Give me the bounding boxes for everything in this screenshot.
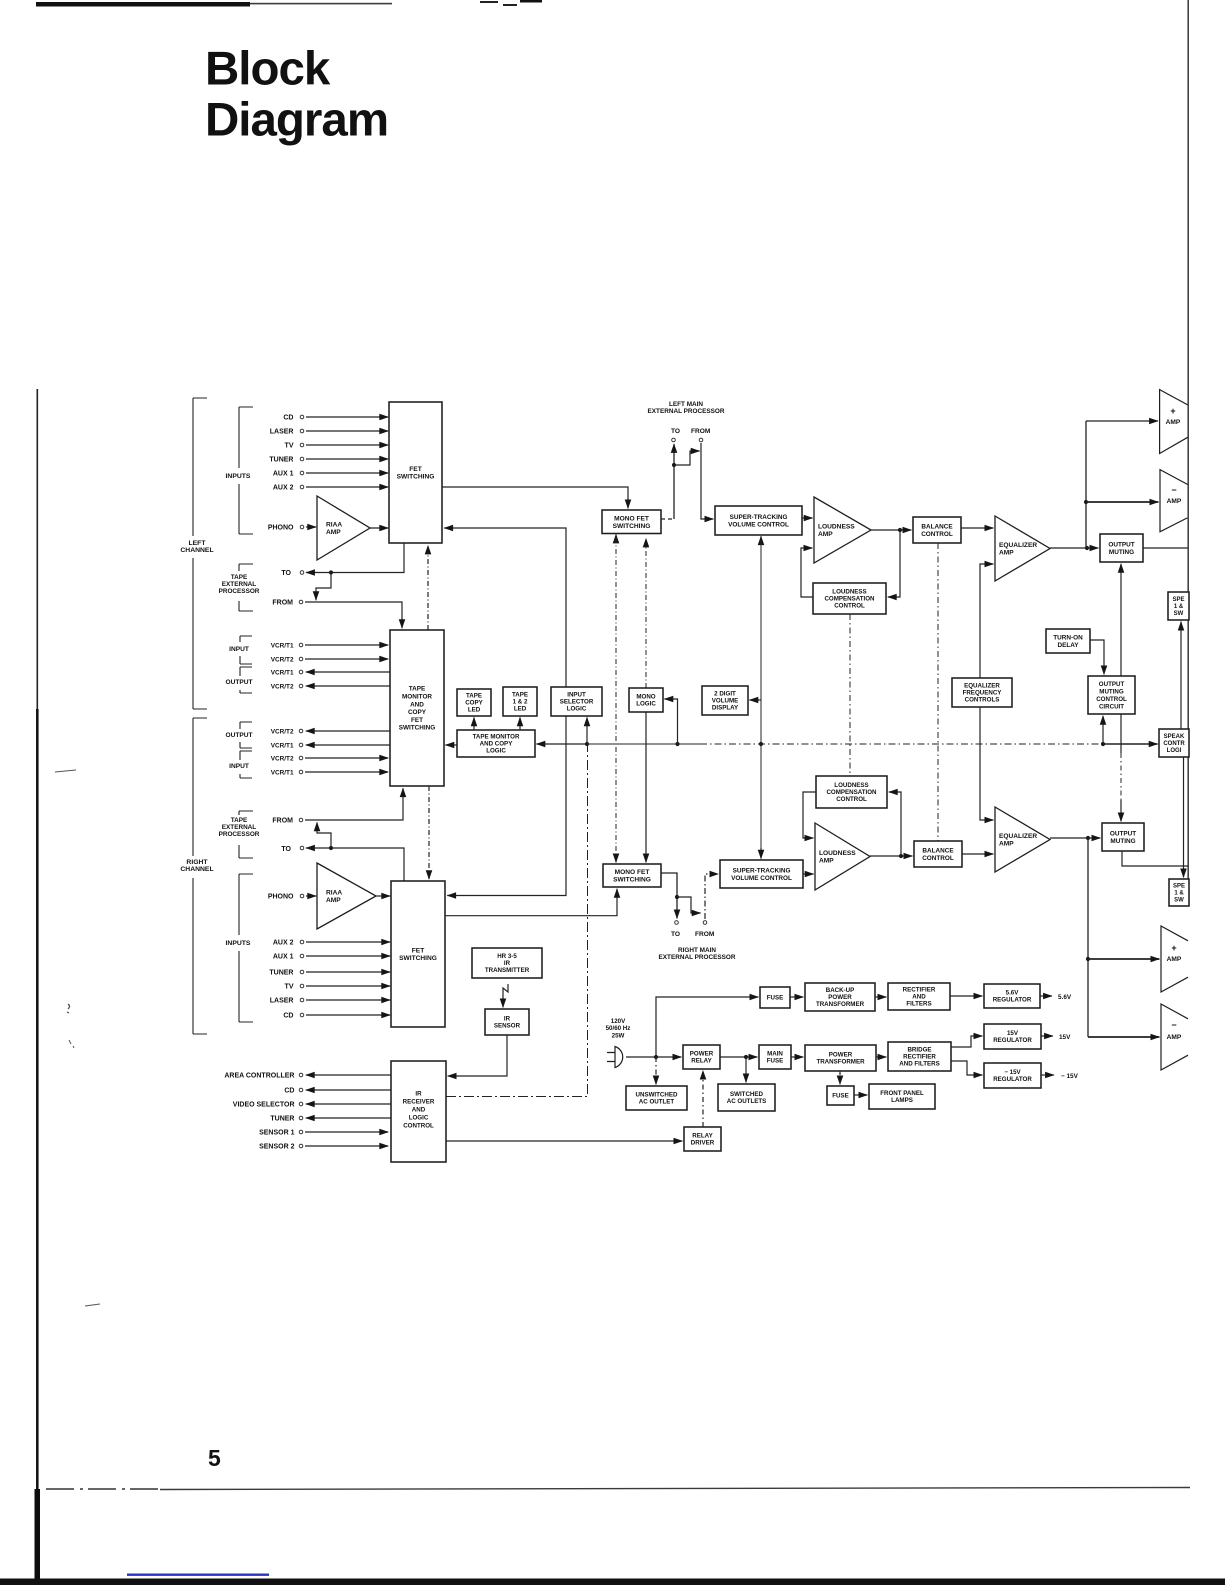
svg-text:LOGIC: LOGIC xyxy=(567,706,587,713)
jack VIDEO SELECTOR xyxy=(299,1102,303,1106)
svg-text:BALANCE: BALANCE xyxy=(921,524,953,531)
block SUPER-TRACKING VOLUME CONTROL right xyxy=(720,860,803,888)
wire omr arrow in xyxy=(1088,837,1100,839)
svg-text:PROCESSOR: PROCESSOR xyxy=(219,831,260,838)
svg-text:LOUDNESS: LOUDNESS xyxy=(818,524,855,531)
svg-text:SWITCHING: SWITCHING xyxy=(613,877,651,884)
svg-text:5: 5 xyxy=(208,1445,221,1471)
svg-text:SUPER-TRACKING: SUPER-TRACKING xyxy=(730,514,788,521)
svg-text:SUPER-TRACKING: SUPER-TRACKING xyxy=(733,868,791,875)
svg-text:LAMPS: LAMPS xyxy=(891,1097,913,1104)
svg-text:FROM: FROM xyxy=(695,931,715,938)
wire TO right tape xyxy=(306,848,404,881)
label LEFT MAIN EXTERNAL PROCESSOR xyxy=(648,401,725,415)
svg-text:FET: FET xyxy=(412,948,424,955)
block POWER TRANSFORMER xyxy=(805,1045,876,1071)
wire bus riser mono logic xyxy=(664,699,677,744)
block TAPE 1 AND 2 LED xyxy=(503,687,537,716)
jack TO right main xyxy=(675,921,679,925)
junction left tape TO xyxy=(329,570,333,574)
block TAPE MONITOR AND COPY LOGIC xyxy=(457,730,535,757)
svg-text:FET: FET xyxy=(409,466,421,473)
label LEFT CHANNEL xyxy=(180,540,213,554)
jack SENSOR 1 xyxy=(299,1130,303,1134)
jack AUX 1 left xyxy=(300,471,304,475)
svg-text:LASER: LASER xyxy=(270,428,294,435)
jack TUNER left xyxy=(300,457,304,461)
wire amp bus right xyxy=(1087,838,1089,1037)
block 5.6V REGULATOR xyxy=(984,984,1040,1008)
wire feed minus amp right xyxy=(1088,1036,1159,1038)
stray scan specks xyxy=(55,770,76,772)
jack FROM left tape xyxy=(299,600,303,604)
svg-text:−: − xyxy=(1171,485,1176,495)
svg-text:IR: IR xyxy=(504,1016,511,1023)
wire CD xyxy=(306,1089,391,1091)
junction switched outlets xyxy=(744,1055,748,1059)
svg-text:COPY: COPY xyxy=(465,700,483,707)
AC plug xyxy=(607,1047,623,1068)
block LOUDNESS COMPENSATION CONTROL right xyxy=(816,776,887,808)
svg-text:TRANSMITTER: TRANSMITTER xyxy=(485,967,530,974)
jack TO right tape xyxy=(300,846,304,850)
svg-text:− 15V: − 15V xyxy=(1061,1073,1079,1080)
wire ir sensor to receiver xyxy=(448,1035,507,1076)
junction loudness-left out xyxy=(898,528,902,532)
wire balance gang link xyxy=(937,543,939,841)
wire bus riser input selector xyxy=(586,717,588,744)
svg-text:SPEAK: SPEAK xyxy=(1164,734,1185,740)
jack AUX 2 left xyxy=(300,485,304,489)
svg-text:AMP: AMP xyxy=(1167,1034,1182,1041)
svg-text:POWER: POWER xyxy=(829,1052,853,1059)
svg-text:SWITCHING: SWITCHING xyxy=(613,523,651,530)
svg-text:TO: TO xyxy=(281,570,291,577)
svg-text:AMP: AMP xyxy=(819,858,834,865)
wire feed plus amp right xyxy=(1088,958,1159,960)
page top rule xyxy=(36,2,250,7)
svg-text:RIAA: RIAA xyxy=(326,890,342,897)
svg-text:REGULATOR: REGULATOR xyxy=(993,997,1032,1004)
svg-text:SPE: SPE xyxy=(1172,597,1184,603)
amplifier +AMP right xyxy=(1161,926,1188,992)
wire RIAA left out xyxy=(370,527,388,529)
svg-text:TO: TO xyxy=(281,846,291,853)
wire mono fet left dash out xyxy=(661,518,674,520)
svg-text:DELAY: DELAY xyxy=(1057,642,1079,649)
svg-text:POWER: POWER xyxy=(690,1051,714,1058)
wire tape monitor to FET-right link xyxy=(428,786,430,879)
wire eq-left out xyxy=(1050,547,1087,549)
wire PHONO left to RIAA xyxy=(306,526,316,528)
wire FROM left main to volume xyxy=(701,443,713,519)
amplifier +AMP left xyxy=(1160,390,1188,454)
junction loudness-right out xyxy=(899,854,903,858)
svg-text:LEFT MAIN: LEFT MAIN xyxy=(669,401,703,408)
block MONO LOGIC xyxy=(629,688,663,712)
junction right main to xyxy=(675,895,679,899)
block TAPE COPY LED xyxy=(457,689,491,716)
amplifier -AMP left xyxy=(1160,470,1188,532)
block HR 3-5 IR TRANSMITTER xyxy=(472,948,542,978)
svg-text:VCR/T2: VCR/T2 xyxy=(271,683,294,690)
junction amp bus plus right xyxy=(1086,957,1090,961)
block SPEAKER CONTROL LOGIC xyxy=(1159,729,1189,757)
svg-text:LED: LED xyxy=(514,706,527,713)
svg-text:CD: CD xyxy=(283,1012,293,1019)
jack VCR/T2 row5 xyxy=(299,729,303,733)
svg-text:LEFT: LEFT xyxy=(189,540,207,547)
right inputs bracket xyxy=(239,874,253,1022)
svg-text:+: + xyxy=(1170,406,1175,416)
svg-text:FET: FET xyxy=(411,717,423,724)
wire ir beam xyxy=(503,984,508,1007)
wire omcc to output muting right arrow xyxy=(1120,800,1122,821)
svg-text:TUNER: TUNER xyxy=(270,1115,294,1122)
wire AUX 1 right input xyxy=(306,955,390,957)
svg-text:EXTERNAL PROCESSOR: EXTERNAL PROCESSOR xyxy=(648,408,725,415)
wire AUX 2 left input xyxy=(306,486,388,488)
svg-text:TO: TO xyxy=(671,428,680,435)
junction right tape TO xyxy=(329,846,333,850)
blue scan mark xyxy=(127,1574,269,1576)
svg-text:15V: 15V xyxy=(1007,1030,1019,1037)
block RECTIFIER AND FILTERS xyxy=(888,983,950,1010)
svg-text:VOLUME CONTROL: VOLUME CONTROL xyxy=(731,875,792,882)
svg-text:AMP: AMP xyxy=(1167,498,1182,505)
wire ac line xyxy=(626,1056,681,1058)
junction eq-left out xyxy=(1085,546,1089,550)
wire right tape loop jog xyxy=(317,822,331,848)
wire 15V out xyxy=(1041,1035,1053,1037)
wire control bus mid xyxy=(587,743,700,745)
svg-text:LOUDNESS: LOUDNESS xyxy=(832,589,866,596)
svg-text:FUSE: FUSE xyxy=(767,995,784,1002)
svg-text:DISPLAY: DISPLAY xyxy=(712,705,739,712)
svg-text:TRANSFORMER: TRANSFORMER xyxy=(816,1059,865,1066)
wire transformer to bridge xyxy=(876,1056,886,1058)
wire CD left input xyxy=(306,416,388,418)
op-amp LOUDNESS AMP right xyxy=(815,823,870,890)
svg-text:DRIVER: DRIVER xyxy=(691,1140,715,1147)
svg-text:BACK-UP: BACK-UP xyxy=(826,987,855,994)
svg-text:OUTPUT: OUTPUT xyxy=(1110,831,1136,838)
svg-text:SW: SW xyxy=(1174,898,1184,904)
svg-text:TV: TV xyxy=(285,983,294,990)
wire mono fet right out xyxy=(661,873,677,918)
svg-text:PROCESSOR: PROCESSOR xyxy=(219,588,260,595)
wire PHONO right to RIAA xyxy=(306,895,316,897)
wire ir receiver to relay driver xyxy=(446,1140,682,1142)
junction bus mono logic xyxy=(675,742,679,746)
svg-text:CONTROL: CONTROL xyxy=(403,1123,434,1130)
wire eq freq to eq-right xyxy=(980,707,993,820)
svg-text:SWITCHING: SWITCHING xyxy=(399,955,437,962)
svg-text:SWITCHING: SWITCHING xyxy=(399,725,436,732)
jack TO left tape xyxy=(300,571,304,575)
svg-text:VCR/T1: VCR/T1 xyxy=(271,669,294,676)
svg-text:Block: Block xyxy=(205,43,331,96)
svg-text:SW: SW xyxy=(1174,611,1184,617)
svg-text:MONITOR: MONITOR xyxy=(402,694,432,701)
svg-text:MONO FET: MONO FET xyxy=(615,869,650,876)
svg-text:AUX 1: AUX 1 xyxy=(273,953,294,960)
wire loudness-right fb up xyxy=(889,792,901,856)
svg-text:CHANNEL: CHANNEL xyxy=(180,866,213,873)
block MAIN FUSE xyxy=(759,1045,791,1069)
svg-text:SPE: SPE xyxy=(1173,884,1185,890)
junction eq-right out xyxy=(1086,836,1090,840)
svg-text:5.6V: 5.6V xyxy=(1006,990,1020,997)
block BACK-UP POWER TRANSFORMER xyxy=(805,983,875,1011)
svg-text:FREQUENCY: FREQUENCY xyxy=(963,690,1003,697)
jack TO left main xyxy=(672,438,676,442)
svg-text:LOGIC: LOGIC xyxy=(636,701,656,708)
svg-text:EQUALIZER: EQUALIZER xyxy=(999,542,1037,549)
junction amp bus minus left xyxy=(1084,500,1088,504)
svg-text:VOLUME CONTROL: VOLUME CONTROL xyxy=(728,521,789,528)
svg-text:POWER: POWER xyxy=(828,994,852,1001)
wire relay driver to power relay xyxy=(702,1071,704,1127)
svg-text:VIDEO SELECTOR: VIDEO SELECTOR xyxy=(233,1101,295,1108)
op-amp EQUALIZER AMP right xyxy=(995,807,1050,872)
jack FROM right main xyxy=(703,921,707,925)
wire mono link A body xyxy=(615,538,617,860)
junction bus muting xyxy=(1101,742,1105,746)
jack TUNER xyxy=(299,1116,303,1120)
label TAPE EXTERNAL PROCESSOR right xyxy=(219,817,260,838)
svg-text:LASER: LASER xyxy=(270,997,294,1004)
wire VCR/T1 row3 xyxy=(306,671,390,673)
svg-text:TAPE: TAPE xyxy=(466,693,482,700)
wire input selector to FET-left xyxy=(444,528,566,687)
svg-text:LOGI: LOGI xyxy=(1167,748,1182,754)
svg-text:1 & 2: 1 & 2 xyxy=(513,699,528,706)
wire FET-left to tape monitor link xyxy=(427,546,429,631)
wire mono link A arrow bottom xyxy=(615,855,617,862)
svg-text:TAPE MONITOR: TAPE MONITOR xyxy=(473,734,520,741)
wire feed plus amp left xyxy=(1086,420,1158,422)
wire output muting left out xyxy=(1143,547,1188,549)
svg-text:SENSOR 1: SENSOR 1 xyxy=(259,1129,295,1136)
junction left main to xyxy=(672,463,676,467)
wire relay to main fuse xyxy=(720,1056,757,1058)
svg-text:FROM: FROM xyxy=(272,600,293,607)
svg-text:HR 3-5: HR 3-5 xyxy=(497,953,517,960)
svg-text:MAIN: MAIN xyxy=(767,1051,783,1058)
junction volume link control bus xyxy=(759,742,763,746)
svg-text:REGULATOR: REGULATOR xyxy=(993,1037,1032,1044)
svg-text:LOGIC: LOGIC xyxy=(409,1115,429,1122)
wire VCR/T1 row8 xyxy=(305,771,388,773)
svg-text:RECTIFIER: RECTIFIER xyxy=(903,987,936,994)
jack AUX 2 right xyxy=(300,940,304,944)
jack LASER left xyxy=(300,429,304,433)
svg-text:AMP: AMP xyxy=(326,529,341,536)
wire mono logic to mono fet left xyxy=(645,539,647,689)
label INPUT top xyxy=(229,646,249,653)
svg-text:AMP: AMP xyxy=(999,841,1014,848)
svg-text:RELAY: RELAY xyxy=(691,1058,712,1065)
svg-text:OUTPUT: OUTPUT xyxy=(225,732,252,739)
svg-text:OUTPUT: OUTPUT xyxy=(225,679,252,686)
block INPUT SELECTOR LOGIC xyxy=(551,687,602,716)
wire eq-right out xyxy=(1050,837,1088,839)
jack VCR/T1 row6 xyxy=(299,743,303,747)
svg-text:2 DIGIT: 2 DIGIT xyxy=(714,691,736,698)
label RIGHT MAIN EXTERNAL PROCESSOR xyxy=(659,947,736,961)
wire FET-right out to mono fet xyxy=(445,889,617,916)
svg-text:TV: TV xyxy=(285,442,294,449)
label INPUT bottom xyxy=(229,763,249,770)
wire stvc-right out xyxy=(803,873,814,875)
svg-text:AMP: AMP xyxy=(999,550,1014,557)
wire VCR/T2 row5 xyxy=(306,730,390,732)
svg-text:VCR/T1: VCR/T1 xyxy=(271,769,294,776)
wire FET-left out to mono fet xyxy=(442,487,628,508)
jack FROM left main xyxy=(699,438,703,442)
wire balance-right out xyxy=(962,853,993,855)
block FUSE backup xyxy=(760,987,790,1008)
block SPEAKER 1 AND 2 SWITCH right xyxy=(1169,879,1189,906)
svg-text:FROM: FROM xyxy=(691,428,711,435)
svg-text:− 15V: − 15V xyxy=(1004,1069,1021,1076)
wire eq freq to eq-left xyxy=(980,564,993,678)
jack TV right xyxy=(300,984,304,988)
wire right main jog xyxy=(677,897,701,913)
svg-text:EXTERNAL: EXTERNAL xyxy=(222,581,257,588)
jack SENSOR 2 xyxy=(299,1144,303,1148)
svg-text:MUTING: MUTING xyxy=(1110,838,1135,845)
svg-text:AND FILTERS: AND FILTERS xyxy=(899,1061,939,1068)
wire fuse to lamps xyxy=(854,1094,867,1096)
wire turn-on delay to omcc xyxy=(1090,640,1104,674)
block BALANCE CONTROL left xyxy=(913,517,961,543)
jack CD left xyxy=(300,415,304,419)
svg-text:BRIDGE: BRIDGE xyxy=(907,1047,931,1054)
label TAPE EXTERNAL PROCESSOR left xyxy=(219,574,260,595)
wire mono link A xyxy=(615,535,617,539)
jack CD xyxy=(299,1088,303,1092)
svg-text:LOUDNESS: LOUDNESS xyxy=(819,850,856,857)
svg-text:TURN-ON: TURN-ON xyxy=(1053,635,1083,642)
block RELAY DRIVER xyxy=(684,1127,721,1151)
block FET SWITCHING right xyxy=(391,881,445,1027)
block SWITCHED AC OUTLETS xyxy=(718,1084,775,1111)
wire tmcl to tape12 led xyxy=(519,717,521,730)
svg-text:CONTROL: CONTROL xyxy=(836,796,867,803)
block FUSE lamps xyxy=(827,1086,854,1105)
svg-text:FUSE: FUSE xyxy=(832,1093,849,1100)
block MONO FET SWITCHING right xyxy=(603,864,661,887)
label 120V 50/60 Hz 25W xyxy=(606,1018,631,1039)
svg-text:CONTROL: CONTROL xyxy=(1096,696,1127,703)
svg-text:INPUT: INPUT xyxy=(567,692,586,699)
jack VCR/T1 row8 xyxy=(299,770,303,774)
svg-text:120V: 120V xyxy=(611,1018,626,1025)
block 2 DIGIT VOLUME DISPLAY xyxy=(702,686,748,715)
wire TV right input xyxy=(306,985,390,987)
svg-text:TAPE: TAPE xyxy=(409,686,426,693)
wire bridge to 15V xyxy=(951,1036,982,1047)
tape ext processor bracket right xyxy=(239,811,253,858)
svg-text:CD: CD xyxy=(284,1087,294,1094)
svg-text:COMPENSATION: COMPENSATION xyxy=(824,596,875,603)
jack LASER right xyxy=(300,998,304,1002)
bottom thin rule xyxy=(46,1488,160,1490)
block TAPE MONITOR AND COPY FET SWITCHING xyxy=(390,630,444,786)
svg-text:15V: 15V xyxy=(1059,1034,1071,1041)
svg-text:SENSOR 2: SENSOR 2 xyxy=(259,1143,295,1150)
right page edge line xyxy=(1187,0,1189,906)
label OUTPUT bottom xyxy=(225,732,252,739)
svg-text:VCR/T2: VCR/T2 xyxy=(271,728,294,735)
svg-text:RIAA: RIAA xyxy=(326,522,342,529)
jack PHONO left xyxy=(300,525,304,529)
wire stvc-left out xyxy=(802,517,813,519)
svg-text:CONTROLS: CONTROLS xyxy=(965,697,1000,704)
svg-text:FRONT PANEL: FRONT PANEL xyxy=(880,1090,924,1097)
wire control bus to speaker logic xyxy=(1103,743,1158,745)
jack PHONO right xyxy=(300,894,304,898)
block OUTPUT MUTING right xyxy=(1102,823,1144,851)
amplifier -AMP right xyxy=(1161,1004,1188,1070)
svg-text:RECTIFIER: RECTIFIER xyxy=(903,1054,936,1061)
jack AUX 1 right xyxy=(300,954,304,958)
svg-text:TAPE: TAPE xyxy=(231,817,248,824)
wire to switched outlets xyxy=(745,1057,747,1082)
wire AUX 2 right input xyxy=(306,941,390,943)
svg-text:VCR/T1: VCR/T1 xyxy=(271,642,294,649)
bottom black bar xyxy=(0,1579,1225,1585)
wire bus from ir receiver xyxy=(446,744,588,1097)
output bracket vcr bottom xyxy=(240,722,252,748)
wire eq-left out arrow xyxy=(1087,547,1098,549)
wire volume link top arrow xyxy=(760,536,762,541)
wire FROM left tape xyxy=(305,602,402,628)
svg-text:1 &: 1 & xyxy=(1174,604,1184,610)
wire VCR/T1 row1 xyxy=(305,644,388,646)
svg-text:AUX 2: AUX 2 xyxy=(273,484,294,491)
block TURN-ON DELAY xyxy=(1046,629,1090,653)
wire volume link to display xyxy=(749,699,761,701)
wire speaker logic to switch left xyxy=(1180,622,1182,729)
jack VCR/T1 row3 xyxy=(299,670,303,674)
svg-text:AUX 1: AUX 1 xyxy=(273,470,294,477)
left channel bracket xyxy=(193,398,207,709)
svg-text:VOLUME: VOLUME xyxy=(712,698,738,705)
wire control bus arrow into tmcl xyxy=(536,743,587,745)
svg-text:BALANCE: BALANCE xyxy=(922,848,954,855)
wire TO left tape xyxy=(306,543,404,573)
svg-text:TAPE: TAPE xyxy=(231,574,248,581)
svg-text:TAPE: TAPE xyxy=(512,692,528,699)
svg-text:CONTROL: CONTROL xyxy=(921,531,953,538)
svg-text:CHANNEL: CHANNEL xyxy=(180,547,213,554)
svg-text:EQUALIZER: EQUALIZER xyxy=(964,683,1000,690)
block EQUALIZER FREQUENCY CONTROLS xyxy=(952,678,1012,707)
svg-text:OUTPUT: OUTPUT xyxy=(1108,542,1134,549)
wire fuse to backup transformer xyxy=(790,996,803,998)
svg-text:MUTING: MUTING xyxy=(1109,549,1134,556)
svg-text:AND: AND xyxy=(912,994,926,1001)
wire TUNER xyxy=(306,1117,391,1119)
wire ac to backup fuse xyxy=(656,997,758,1057)
svg-text:1 &: 1 & xyxy=(1174,891,1184,897)
block POWER RELAY xyxy=(683,1045,720,1069)
wire FROM right main to volume xyxy=(705,874,718,919)
block SPEAKER 1 AND 2 SWITCH left xyxy=(1168,592,1189,620)
